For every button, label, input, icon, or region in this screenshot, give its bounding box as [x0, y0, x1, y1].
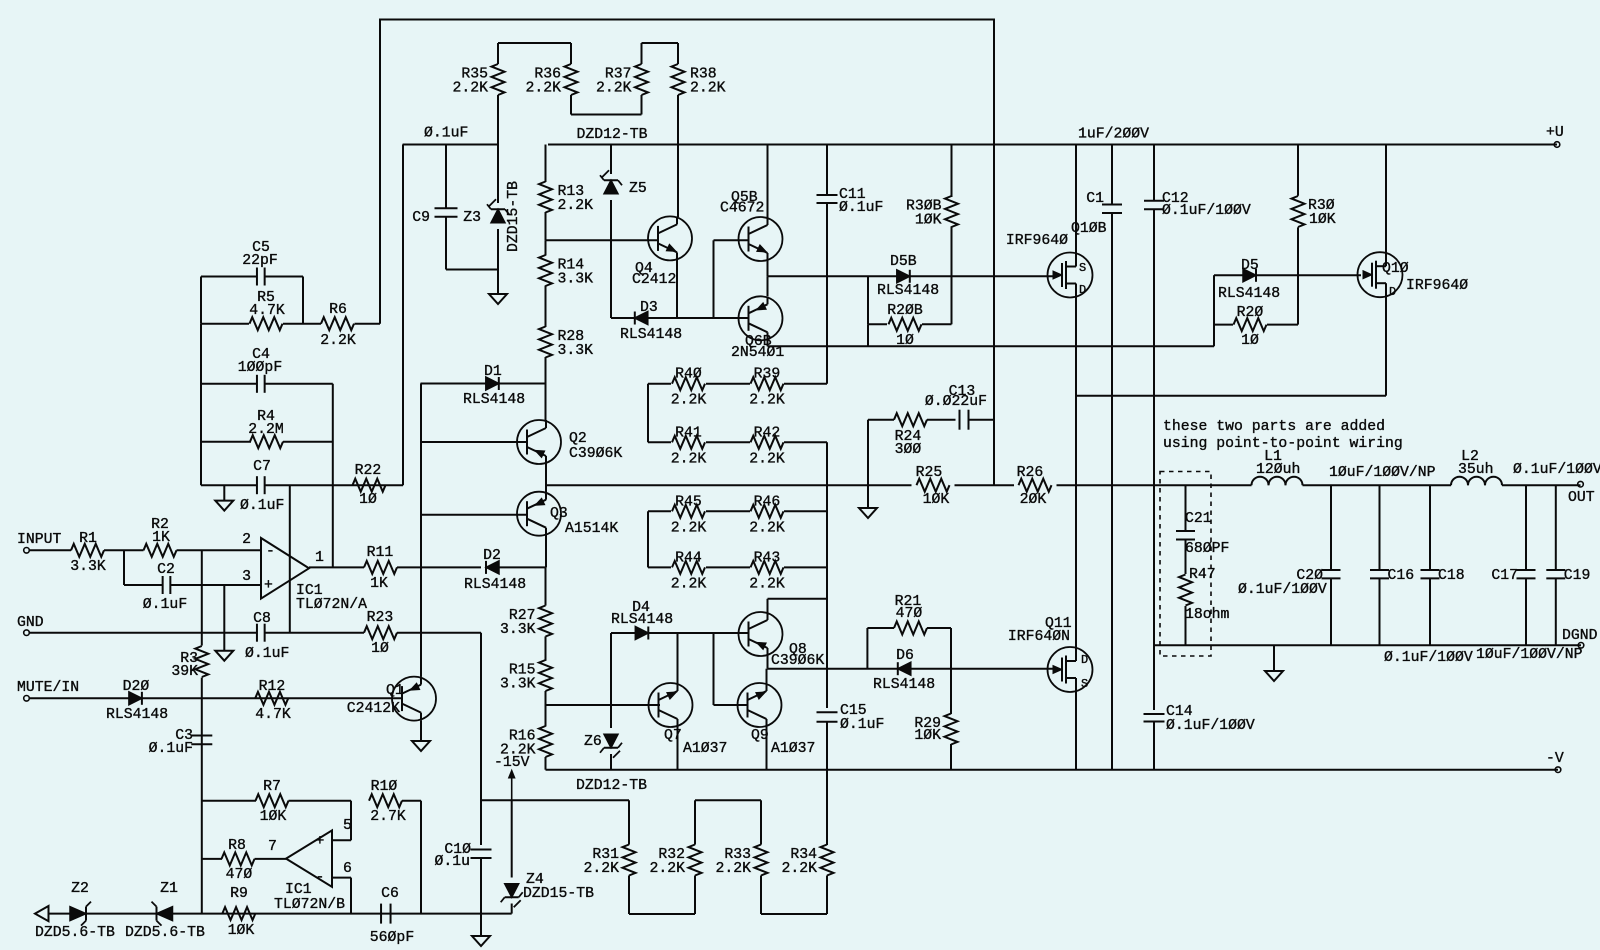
transistor Q1: [392, 677, 436, 721]
resistor R6: [321, 317, 354, 330]
resistor R10: [369, 794, 402, 807]
svg-text:R12: R12: [259, 679, 286, 695]
svg-text:Ø.1uF: Ø.1uF: [245, 646, 289, 662]
node output wire: [546, 484, 912, 486]
resistor R14: [545, 240, 547, 255]
svg-text:2.7K: 2.7K: [370, 809, 406, 825]
svg-text:C9: C9: [412, 210, 430, 226]
resistor R15: [539, 660, 552, 691]
transistor Q9: [766, 669, 768, 684]
svg-text:2.2M: 2.2M: [248, 422, 284, 438]
resistor R24: [868, 419, 894, 421]
svg-text:3.3K: 3.3K: [70, 559, 106, 575]
resistor R37: [641, 43, 643, 64]
svg-text:Q7: Q7: [664, 728, 682, 744]
svg-text:DZD15-TB: DZD15-TB: [523, 886, 594, 902]
wire Q4 base: [546, 239, 659, 241]
resistor R29: [950, 628, 952, 714]
transistor Q5B: [767, 145, 769, 218]
inductor L1: [1252, 477, 1269, 486]
resistor R32: [694, 800, 696, 844]
capacitor C19: [1555, 485, 1557, 570]
svg-text:1ØK: 1ØK: [915, 213, 942, 229]
svg-text:2.2K: 2.2K: [781, 861, 817, 877]
transistor Q4: [677, 145, 679, 218]
svg-text:R25: R25: [916, 465, 943, 481]
svg-text:3: 3: [242, 569, 251, 585]
svg-text:1Ø: 1Ø: [359, 492, 377, 508]
svg-text:Ø.1uF: Ø.1uF: [240, 498, 284, 514]
svg-text:22pF: 22pF: [242, 253, 278, 269]
transistor Q7: [677, 633, 679, 684]
svg-text:RLS4148: RLS4148: [464, 577, 526, 593]
svg-text:-: -: [266, 544, 275, 560]
svg-text:5: 5: [343, 818, 352, 834]
wire Q10 drain: [1076, 395, 1386, 397]
ground below DGND wire: [1273, 645, 1275, 671]
svg-text:1ØuF/1ØØV/NP: 1ØuF/1ØØV/NP: [1329, 465, 1436, 481]
resistor R30B: [951, 145, 953, 198]
svg-text:RLS4148: RLS4148: [106, 707, 168, 723]
svg-text:12Øuh: 12Øuh: [1256, 462, 1300, 478]
svg-text:6: 6: [343, 861, 352, 877]
svg-text:7: 7: [268, 839, 277, 855]
capacitor C5: [200, 277, 202, 324]
wire: [1057, 484, 1252, 486]
svg-text:C21: C21: [1185, 511, 1212, 527]
resistor R5: [201, 323, 249, 325]
svg-text:1ØuF/1ØØV/NP: 1ØuF/1ØØV/NP: [1476, 647, 1583, 663]
svg-text:RLS4148: RLS4148: [463, 392, 525, 408]
svg-text:2N54Ø1: 2N54Ø1: [731, 345, 784, 361]
svg-text:1Ø: 1Ø: [896, 333, 914, 349]
transistor Q8: [739, 612, 783, 656]
svg-text:1ØK: 1ØK: [228, 923, 255, 939]
terminal DGND: [1578, 643, 1584, 649]
svg-text:DZD12-TB: DZD12-TB: [576, 778, 647, 794]
resistor R28: [539, 327, 552, 358]
svg-text:C19: C19: [1564, 568, 1591, 584]
wire Q3 base: [421, 514, 528, 516]
node -V rail: [546, 769, 1559, 771]
svg-text:S: S: [1079, 261, 1086, 275]
svg-text:R23: R23: [367, 610, 394, 626]
svg-text:1K: 1K: [152, 530, 170, 546]
svg-text:C39Ø6K: C39Ø6K: [569, 446, 622, 462]
wire Q6B collector to right module: [1213, 275, 1215, 346]
resistor R11: [364, 561, 397, 574]
svg-text:RLS4148: RLS4148: [873, 677, 935, 693]
wire pin1 output: [309, 566, 364, 568]
resistor R41: [648, 441, 671, 443]
svg-text:R39: R39: [754, 367, 781, 383]
capacitor C8: [256, 624, 258, 642]
wire mute row: [29, 697, 403, 699]
svg-text:R47: R47: [1189, 567, 1216, 583]
resistor R43: [706, 566, 750, 568]
wire to OUT: [1502, 484, 1581, 486]
wire R22 to rail: [402, 145, 404, 486]
diode D5B: [897, 270, 910, 283]
wire pin5 riser: [350, 801, 352, 841]
zener Z2: [70, 907, 86, 921]
capacitor C16: [1379, 485, 1381, 570]
wire Q6B emitter: [767, 276, 769, 296]
svg-text:R7: R7: [263, 779, 281, 795]
svg-text:R1Ø: R1Ø: [371, 779, 398, 795]
wire R40-R41 bracket: [647, 384, 649, 443]
svg-text:Ø.1uF/1ØØV: Ø.1uF/1ØØV: [1513, 462, 1600, 478]
svg-text:C6: C6: [381, 886, 399, 902]
node DGND wire: [1154, 644, 1581, 646]
svg-text:DGND: DGND: [1562, 628, 1598, 644]
svg-text:+: +: [316, 834, 325, 850]
wire R31-R32 bottom: [629, 913, 695, 915]
svg-text:47Ø: 47Ø: [896, 606, 923, 622]
ground below Z3: [497, 270, 499, 295]
svg-text:R22: R22: [355, 463, 382, 479]
diode D20: [129, 692, 142, 705]
svg-text:A1Ø37: A1Ø37: [771, 741, 815, 757]
svg-text:Ø.1uF/1ØØV: Ø.1uF/1ØØV: [1162, 203, 1251, 219]
resistor R12: [255, 692, 288, 705]
svg-text:R42: R42: [754, 425, 781, 441]
svg-text:DZD12-TB: DZD12-TB: [577, 127, 648, 143]
terminal arrow left: [35, 906, 49, 921]
dashed box point-to-point: [1160, 472, 1211, 657]
transistor Q2: [545, 384, 547, 421]
svg-text:C16: C16: [1388, 568, 1415, 584]
svg-text:3ØØ: 3ØØ: [895, 442, 922, 458]
svg-text:2.2K: 2.2K: [649, 861, 685, 877]
ground at C7: [223, 485, 225, 500]
capacitor C21: [1185, 485, 1187, 531]
svg-text:18ohm: 18ohm: [1185, 607, 1230, 623]
svg-text:2.2K: 2.2K: [690, 81, 726, 97]
capacitor C18: [1429, 485, 1431, 570]
svg-text:1Ø: 1Ø: [1241, 333, 1259, 349]
capacitor C6: [380, 904, 382, 924]
svg-text:2.2K: 2.2K: [452, 81, 488, 97]
op-amp IC1 TL072N/B: [286, 830, 332, 886]
wire Q7 base: [546, 704, 661, 706]
svg-text:Q1Ø: Q1Ø: [1382, 261, 1409, 277]
svg-text:R11: R11: [367, 545, 394, 561]
svg-text:IRF964Ø: IRF964Ø: [1406, 278, 1468, 294]
svg-text:DZD5.6-TB: DZD5.6-TB: [125, 925, 205, 941]
wire: [955, 484, 1015, 486]
resistor R30: [1297, 145, 1299, 196]
wire D5B node: [768, 275, 1054, 277]
svg-text:C2412K: C2412K: [347, 701, 400, 717]
diode D6: [898, 662, 911, 675]
resistor R45: [648, 510, 671, 512]
svg-text:Ø.Ø22uF: Ø.Ø22uF: [925, 394, 987, 410]
svg-text:1ØK: 1ØK: [914, 728, 941, 744]
wire C7-C8 riser: [289, 485, 291, 633]
resistor R16: [545, 705, 547, 727]
svg-text:2.2K: 2.2K: [671, 520, 707, 536]
svg-text:4.7K: 4.7K: [249, 303, 285, 319]
svg-text:2.2K: 2.2K: [749, 393, 785, 409]
capacitor C7: [256, 476, 258, 494]
wire top rail: [380, 20, 994, 486]
svg-text:A1514K: A1514K: [565, 521, 618, 537]
wire input column: [201, 550, 203, 632]
svg-text:3.3K: 3.3K: [558, 272, 594, 288]
svg-text:C8: C8: [253, 611, 271, 627]
resistor R31: [628, 800, 630, 844]
svg-text:3.3K: 3.3K: [558, 343, 594, 359]
wire Q2 base: [421, 441, 528, 443]
wire GND row: [29, 632, 257, 634]
svg-text:2.2K: 2.2K: [558, 198, 594, 214]
resistor R23: [364, 626, 397, 639]
wire D6 node: [768, 668, 1054, 670]
svg-text:1K: 1K: [370, 576, 388, 592]
svg-text:D: D: [1079, 283, 1086, 297]
wire: [1303, 484, 1452, 486]
capacitor C17: [1525, 485, 1527, 570]
svg-text:Q1ØB: Q1ØB: [1071, 221, 1107, 237]
resistor R40: [648, 383, 671, 385]
svg-text:2.2K: 2.2K: [671, 576, 707, 592]
svg-text:2.2K: 2.2K: [749, 520, 785, 536]
svg-text:C2: C2: [157, 562, 175, 578]
diode D4: [611, 632, 641, 634]
svg-text:-: -: [316, 870, 325, 886]
svg-text:RLS4148: RLS4148: [620, 327, 682, 343]
svg-text:-V: -V: [1546, 751, 1564, 767]
supply arrow -15V: [511, 773, 513, 800]
svg-text:-15V: -15V: [494, 755, 530, 771]
svg-text:3.3K: 3.3K: [500, 677, 536, 693]
wire C7 row: [201, 484, 257, 486]
ground below C10: [472, 936, 490, 946]
svg-text:2.2K: 2.2K: [671, 451, 707, 467]
terminal OUT: [1578, 481, 1584, 487]
svg-text:RLS4148: RLS4148: [877, 283, 939, 299]
svg-text:2.2K: 2.2K: [749, 451, 785, 467]
zener Z5: [610, 145, 612, 175]
svg-text:2.2K: 2.2K: [749, 576, 785, 592]
svg-text:A1Ø37: A1Ø37: [683, 741, 727, 757]
svg-text:1ØK: 1ØK: [260, 809, 287, 825]
svg-text:Ø.1uF: Ø.1uF: [424, 126, 468, 142]
ground below R24: [867, 420, 869, 508]
node +U rail: [403, 144, 498, 146]
resistor R4: [201, 441, 251, 443]
svg-text:1Ø: 1Ø: [371, 641, 389, 657]
svg-text:Q2: Q2: [569, 431, 587, 447]
resistor R25: [917, 479, 950, 492]
svg-text:D: D: [1081, 653, 1088, 667]
svg-text:2.2K: 2.2K: [525, 81, 561, 97]
resistor R9: [222, 907, 255, 920]
diode D3: [611, 317, 748, 319]
svg-text:C2412: C2412: [632, 272, 676, 288]
svg-text:Z5: Z5: [629, 181, 647, 197]
svg-text:2.2K: 2.2K: [596, 81, 632, 97]
ground below Q1: [420, 721, 422, 741]
svg-text:2: 2: [242, 532, 251, 548]
wire C9-Z3: [446, 269, 498, 271]
svg-text:Z3: Z3: [463, 210, 481, 226]
zener Z3: [497, 145, 499, 204]
svg-text:D: D: [1389, 285, 1396, 299]
resistor R13: [545, 145, 547, 183]
resistor R2: [144, 544, 177, 557]
svg-text:Z1: Z1: [160, 881, 178, 897]
svg-text:Ø.1uF/1ØØV: Ø.1uF/1ØØV: [1384, 650, 1473, 666]
resistor R47: [1185, 540, 1187, 575]
capacitor C2: [123, 550, 125, 585]
svg-text:RLS4148: RLS4148: [1218, 286, 1280, 302]
ground below pin3 wire: [223, 585, 225, 651]
svg-text:IRF64ØN: IRF64ØN: [1008, 629, 1070, 645]
capacitor C20: [1330, 485, 1332, 570]
zener Z4: [511, 800, 513, 877]
wire Q6B collector: [767, 341, 769, 347]
transistor Q11: [1075, 485, 1077, 647]
wire: [104, 549, 144, 551]
transistor Q10B: [1075, 145, 1077, 254]
svg-text:R41: R41: [675, 425, 702, 441]
svg-text:2.2K: 2.2K: [715, 861, 751, 877]
svg-text:39K: 39K: [171, 664, 198, 680]
capacitor C14: [1144, 713, 1165, 715]
resistor R21: [866, 628, 868, 669]
svg-text:Z6: Z6: [584, 734, 602, 750]
svg-text:R4Ø: R4Ø: [675, 367, 702, 383]
svg-text:D5B: D5B: [890, 254, 917, 270]
svg-text:56ØpF: 56ØpF: [370, 930, 414, 946]
diode D1: [421, 383, 487, 385]
wire R35-R36 top bracket: [498, 42, 571, 44]
svg-text:RLS4148: RLS4148: [611, 612, 673, 628]
resistor R46: [706, 510, 750, 512]
svg-text:MUTE/IN: MUTE/IN: [17, 680, 79, 696]
diode D2: [486, 561, 499, 574]
svg-text:2.2K: 2.2K: [320, 333, 356, 349]
wire pin2: [177, 549, 262, 551]
resistor R26: [1019, 479, 1052, 492]
svg-text:GND: GND: [17, 615, 44, 631]
svg-text:68ØPF: 68ØPF: [1185, 541, 1229, 557]
wire R45-R44 bracket: [647, 511, 649, 567]
diode D5: [1214, 274, 1361, 276]
capacitor C11: [826, 145, 828, 196]
resistor R7: [256, 794, 289, 807]
resistor R27: [545, 567, 547, 605]
node feedback vertical: [332, 384, 334, 568]
resistor R39: [706, 383, 750, 385]
resistor R42: [706, 441, 750, 443]
wire R33-R34 bottom: [761, 913, 827, 915]
svg-text:D1: D1: [484, 364, 502, 380]
capacitor C12: [1153, 145, 1155, 201]
svg-text:1uF/2ØØV: 1uF/2ØØV: [1078, 127, 1149, 143]
svg-text:Ø.1uF/1ØØV: Ø.1uF/1ØØV: [1238, 582, 1327, 598]
svg-text:C7: C7: [253, 459, 271, 475]
svg-text:4.7K: 4.7K: [255, 707, 291, 723]
svg-text:+: +: [264, 578, 273, 594]
svg-text:Ø.1uF: Ø.1uF: [149, 741, 193, 757]
svg-text:R46: R46: [754, 494, 781, 510]
inductor L2: [1451, 477, 1468, 486]
svg-text:these two parts are added: these two parts are added: [1163, 419, 1385, 435]
transistor Q10: [1385, 145, 1387, 253]
wire R7 row: [201, 698, 203, 913]
svg-text:R6: R6: [329, 302, 347, 318]
svg-text:C18: C18: [1438, 568, 1465, 584]
wire Q2-Q3 emitters: [545, 464, 547, 493]
resistor R22: [353, 479, 386, 492]
svg-text:Z2: Z2: [71, 881, 89, 897]
resistor R1: [29, 549, 71, 551]
svg-text:Ø.1uF: Ø.1uF: [839, 200, 883, 216]
wire R32-R33 top: [695, 799, 761, 801]
svg-text:R9: R9: [230, 886, 248, 902]
resistor R38: [677, 43, 679, 64]
svg-text:S: S: [1081, 677, 1088, 691]
svg-text:Ø.1uF: Ø.1uF: [840, 717, 884, 733]
svg-text:using point-to-point wiring: using point-to-point wiring: [1163, 436, 1403, 452]
svg-text:R2ØB: R2ØB: [887, 303, 923, 319]
resistor R36: [570, 43, 572, 64]
wire bottom row: [49, 913, 512, 915]
svg-text:35uh: 35uh: [1458, 462, 1494, 478]
svg-text:1: 1: [315, 550, 324, 566]
svg-text:3.3K: 3.3K: [500, 622, 536, 638]
svg-text:2.2K: 2.2K: [583, 861, 619, 877]
svg-text:DZD5.6-TB: DZD5.6-TB: [35, 925, 115, 941]
svg-text:C17: C17: [1491, 568, 1518, 584]
svg-text:Q1: Q1: [386, 683, 404, 699]
svg-text:D2: D2: [483, 548, 501, 564]
zener Z6: [610, 633, 612, 728]
svg-text:1ØK: 1ØK: [1309, 212, 1336, 228]
wire pin6 riser: [332, 877, 351, 879]
svg-text:Q3: Q3: [550, 506, 568, 522]
capacitor C3: [191, 735, 212, 737]
svg-text:DZD15-TB: DZD15-TB: [506, 181, 522, 252]
wire R10 down: [420, 801, 422, 914]
op-amp IC1 TL072N/A: [261, 538, 309, 599]
svg-text:2ØK: 2ØK: [1020, 492, 1047, 508]
wire R23 to C10: [397, 632, 481, 634]
resistor R35: [497, 43, 499, 64]
svg-text:Ø.1uF/1ØØV: Ø.1uF/1ØØV: [1166, 718, 1255, 734]
svg-text:1ØK: 1ØK: [923, 492, 950, 508]
node -15V wire: [481, 799, 629, 801]
svg-text:IC1: IC1: [285, 882, 312, 898]
wire Q3 collector: [545, 536, 547, 568]
svg-text:Q9: Q9: [751, 728, 769, 744]
zener Z1: [157, 907, 173, 921]
resistor R44: [648, 566, 671, 568]
capacitor C15: [817, 711, 838, 713]
svg-text:TLØ72N/A: TLØ72N/A: [296, 597, 367, 613]
capacitor C9: [445, 145, 447, 209]
svg-text:C39Ø6K: C39Ø6K: [771, 653, 824, 669]
capacitor C4: [200, 324, 202, 486]
transistor Q6B: [739, 296, 783, 340]
transistor Q3: [517, 492, 561, 536]
svg-text:R26: R26: [1017, 465, 1044, 481]
resistor R34: [821, 845, 834, 876]
svg-text:D5: D5: [1241, 258, 1259, 274]
